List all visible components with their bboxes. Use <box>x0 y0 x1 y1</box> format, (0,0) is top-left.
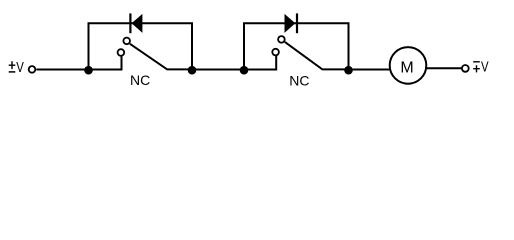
wire left riser of block 1 <box>88 23 90 69</box>
diode D1 (cathode left) <box>130 13 142 33</box>
switch S2 lower contact (open circle) <box>272 49 279 56</box>
wire switch S2 pole (node C to lower contact) <box>244 56 276 70</box>
wire node D to motor <box>349 69 392 71</box>
diode D2 (cathode right) <box>285 13 298 33</box>
wire T1 to node A <box>36 69 88 71</box>
motor M1 (circle) <box>390 47 427 84</box>
node B (junction dot) <box>188 66 197 75</box>
wire top branch of block 2 <box>243 22 350 24</box>
wire left riser of block 2 <box>243 23 245 69</box>
switch S1 lower contact (open circle) <box>118 49 125 56</box>
wire top branch of block 1 <box>88 22 194 24</box>
switch S2 upper contact (open circle) <box>278 36 285 43</box>
wire node B to node C <box>192 69 244 71</box>
label ±V (left supply, plus-over-minus drawn with lines) <box>9 59 24 76</box>
wire right riser of block 1 <box>191 23 193 69</box>
switch S1 upper contact (open circle) <box>123 38 130 45</box>
node C (junction dot) <box>240 66 249 75</box>
switch S1 lever arm to node B <box>130 44 192 70</box>
svg-text:V: V <box>16 59 24 76</box>
node A (junction dot) <box>84 66 93 75</box>
wire switch S1 pole (node A to lower contact) <box>89 56 122 70</box>
terminal T1 (open circle) <box>29 66 36 73</box>
switch S2 lever arm to node D <box>285 42 349 70</box>
wire right riser of block 2 <box>348 23 350 69</box>
wire motor to terminal T2 <box>425 67 462 69</box>
svg-text:V: V <box>481 59 489 76</box>
svg-text:NC: NC <box>130 72 150 88</box>
svg-text:M: M <box>400 60 413 77</box>
node D (junction dot) <box>344 66 353 75</box>
svg-text:NC: NC <box>289 73 309 89</box>
terminal T2 (open circle) <box>462 65 469 72</box>
label ∓V (right supply, minus-over-plus drawn with lines) <box>473 59 488 76</box>
